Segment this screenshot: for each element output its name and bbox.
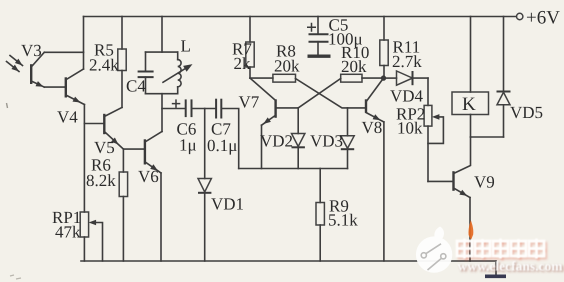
svg-text:20k: 20k (341, 57, 367, 76)
wire V9 base lead (428, 180, 454, 182)
watermark flame (468, 220, 473, 240)
watermark chinese text white body (457, 239, 544, 259)
wire rail drop to V3/V4 collectors (83, 17, 85, 70)
diode VD4 (384, 71, 429, 85)
svg-text:20k: 20k (274, 57, 300, 76)
transistor V7 (250, 78, 276, 125)
diode VD2 (292, 108, 305, 169)
relay K coil (452, 17, 489, 138)
wire V8 emitter to ground rail (383, 122, 385, 261)
svg-text:+6V: +6V (526, 8, 560, 29)
svg-text:0.1μ: 0.1μ (207, 136, 237, 155)
svg-text:V5: V5 (94, 138, 115, 157)
wire V5 base lead (84, 123, 104, 125)
node +6V terminal (517, 13, 523, 19)
svg-text:V7: V7 (239, 93, 260, 112)
svg-text:V9: V9 (474, 173, 495, 192)
wire tank to V6 collector (161, 94, 163, 132)
wire V5 emitter to V6 base (123, 148, 144, 150)
svg-text:VD1: VD1 (211, 195, 244, 214)
capacitor C7 (216, 99, 221, 119)
speck bottom left (10, 275, 21, 279)
potentiometer RP1 (80, 212, 102, 261)
svg-text:VD5: VD5 (510, 103, 543, 122)
wire C7 down to trigger line (221, 109, 238, 169)
svg-text:V3: V3 (21, 41, 42, 60)
wire V6 emitter down to ground rail (160, 173, 162, 261)
wire trigger emitter line (239, 168, 348, 170)
svg-text:VD3: VD3 (310, 132, 343, 151)
svg-text:V4: V4 (57, 108, 78, 127)
wire rail drop to tank circuit (161, 17, 163, 53)
svg-text:2.4k: 2.4k (89, 56, 119, 75)
node V8 collector junction dot (381, 75, 386, 80)
svg-text:C4: C4 (126, 77, 146, 96)
light arrow 1 into V3 (10, 56, 23, 66)
wire V9 emitter to ground rail (469, 198, 471, 262)
svg-text:V8: V8 (362, 118, 383, 137)
wire V3 emitter to V4 base (44, 86, 66, 88)
transistor V4 (66, 69, 85, 105)
diode VD1 (198, 109, 211, 262)
wire K to VD5 bottom (471, 136, 504, 138)
resistor R11 (380, 17, 388, 79)
speck left edge (7, 103, 8, 108)
wire R10 to collector node (362, 77, 384, 79)
svg-text:5.1k: 5.1k (328, 211, 358, 230)
inductor L adjustable (163, 52, 193, 94)
wire bottom ground rail (81, 260, 496, 262)
wire tank top (146, 51, 178, 53)
svg-text:8.2k: 8.2k (86, 171, 116, 190)
resistor R6 (119, 149, 127, 261)
svg-text:L: L (181, 37, 191, 56)
transistor V9 (454, 137, 471, 198)
potentiometer RP2 (424, 78, 443, 181)
label C5 plus sign (307, 23, 316, 32)
capacitor C6 (186, 99, 192, 117)
diode VD3 (341, 108, 354, 169)
svg-text:VD4: VD4 (390, 87, 424, 106)
resistor R7 (246, 17, 254, 79)
wire R10 cross-couple to V7 base (276, 79, 341, 108)
diode VD5 (497, 17, 511, 138)
transistor V5 (104, 107, 123, 149)
svg-text:10k: 10k (397, 119, 423, 138)
svg-text:2.7k: 2.7k (392, 52, 422, 71)
svg-text:V6: V6 (138, 167, 159, 186)
wire tank bottom (146, 93, 178, 95)
svg-text:1μ: 1μ (179, 136, 197, 155)
svg-text:VD2: VD2 (260, 132, 293, 151)
wire R7 to R8 (250, 77, 273, 79)
resistor R9 (316, 169, 324, 262)
watermark logo circle (416, 227, 452, 273)
svg-text:www.elecfans.com: www.elecfans.com (458, 258, 564, 273)
wire R8 cross-couple to V8 base (296, 79, 367, 108)
capacitor C5 (308, 17, 331, 57)
wire V7 emitter drop (261, 125, 263, 168)
label C6 plus sign (172, 99, 181, 108)
wire V4 emitter down to RP1 (83, 105, 85, 213)
wire top +6V rail (84, 16, 517, 18)
transistor V8 (366, 78, 384, 122)
wire V3 collector horizontal (44, 51, 83, 53)
svg-text:2k: 2k (234, 54, 252, 73)
wire tank junction to C6 (162, 108, 186, 110)
resistor R8 (273, 74, 296, 82)
resistor R10 (341, 74, 362, 82)
light arrow 2 into V3 (7, 62, 20, 72)
capacitor C4 (138, 52, 154, 94)
ground symbol (485, 261, 506, 276)
resistor R5 (118, 17, 126, 108)
watermark chinese text red shadow (459, 241, 546, 261)
svg-text:K: K (462, 94, 476, 115)
transistor V6 (145, 132, 162, 174)
transistor V3 phototransistor (31, 52, 44, 87)
svg-text:47k: 47k (55, 223, 81, 242)
wire C6 to C7 (192, 108, 217, 110)
